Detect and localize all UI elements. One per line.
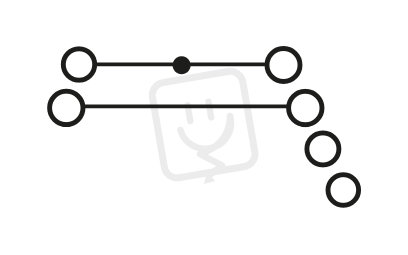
terminal clamp point 1 (circuit 1, left) bbox=[63, 49, 94, 80]
terminal clamp point 5 (unconnected) bbox=[307, 133, 339, 165]
terminal clamp point 2 (circuit 1, right) bbox=[267, 49, 300, 82]
watermark logo (rounded square with plug-face) bbox=[150, 69, 258, 190]
terminal clamp point 3 (circuit 2, left) bbox=[50, 91, 83, 124]
terminal clamp point 4 (circuit 2, right) bbox=[289, 91, 322, 124]
wire circuit 2 bbox=[84, 105, 288, 109]
wire circuit 1 bbox=[95, 63, 267, 67]
terminal clamp point 6 (unconnected) bbox=[328, 175, 359, 206]
junction node (center tap) on circuit 1 bbox=[173, 56, 191, 74]
